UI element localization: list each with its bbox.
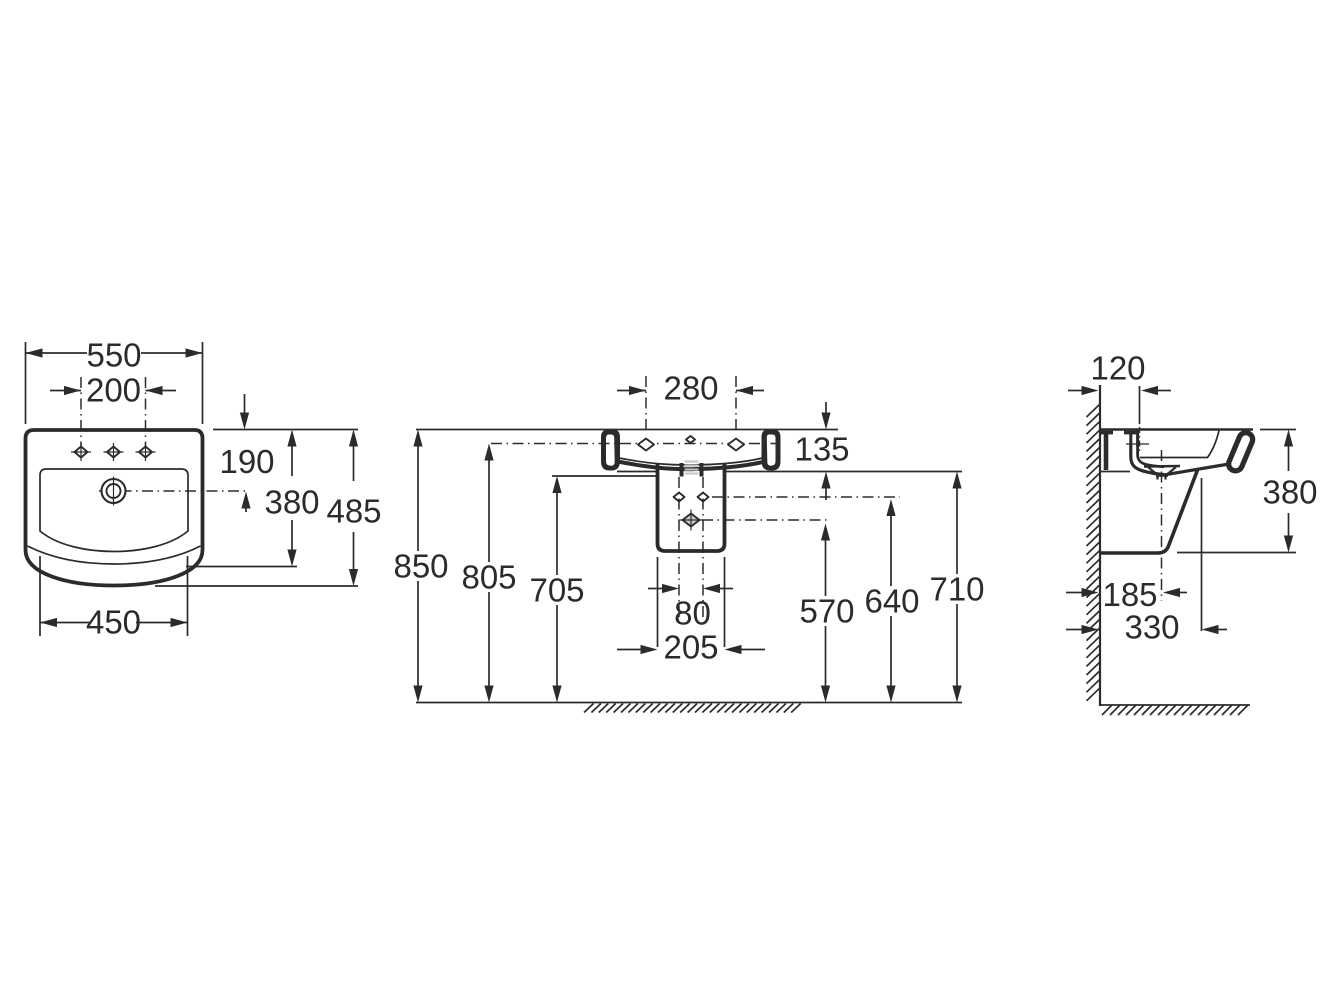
svg-text:380: 380 — [264, 484, 319, 521]
side view: tap hole centre cross — [1126, 443, 1149, 445]
front view: waste stripes — [685, 460, 699, 462]
plan: front ledge curve — [28, 546, 201, 564]
plan: inner basin outline — [40, 469, 188, 552]
side view: overflow channel walls — [1129, 432, 1132, 447]
side view: top edge — [1100, 428, 1253, 431]
svg-text:550: 550 — [86, 337, 141, 374]
svg-text:280: 280 — [663, 370, 718, 407]
dimension 190 — [244, 394, 246, 413]
front view: top edge line with extensions — [416, 429, 838, 431]
dimension 550 — [25, 342, 27, 424]
svg-text:640: 640 — [864, 583, 919, 620]
side view: bowl front underside — [1166, 464, 1232, 475]
dimension 185 — [1066, 592, 1082, 594]
plan top edge extension line — [213, 429, 358, 431]
side view: floor line — [1100, 704, 1250, 706]
side view: deck section bar with fixing slot — [1100, 431, 1113, 435]
side view: back rim section — [1104, 432, 1109, 470]
svg-text:330: 330 — [1124, 609, 1179, 646]
front view: tap hole centre — [686, 436, 695, 443]
dimension 330 — [1066, 629, 1082, 631]
side view: floor hatching — [1102, 705, 1112, 715]
front view: basin underside curves — [619, 458, 763, 465]
dimension 280 — [645, 376, 647, 431]
dimension 80 — [648, 588, 662, 590]
svg-text:705: 705 — [529, 572, 584, 609]
plan: drain circle — [102, 479, 126, 503]
svg-text:850: 850 — [393, 548, 448, 585]
front view: waste fixing tabs — [680, 463, 684, 477]
side view: inner rim curve — [1208, 431, 1220, 458]
front view: tap hole right — [728, 439, 744, 451]
svg-text:200: 200 — [86, 372, 141, 409]
ground line — [416, 702, 962, 704]
dimension 705 — [556, 493, 558, 687]
front view: dash-dot centrelines of pedestal holes — [678, 477, 680, 621]
plan: tap hole right — [139, 447, 152, 458]
side view: bowl back wall section — [1131, 446, 1166, 475]
front view: right rim end — [762, 430, 781, 471]
side view: bowl bottom and waste section — [1144, 465, 1180, 468]
svg-text:805: 805 — [461, 559, 516, 596]
dimension 380 (plan) — [291, 446, 293, 476]
dimension 850 — [417, 446, 419, 686]
plan: tap hole centre — [107, 447, 120, 458]
dimension 205 — [657, 557, 659, 647]
dimension 450 — [39, 556, 41, 636]
side view: wall hatching — [1087, 404, 1101, 417]
side view: drain centreline dash-dot — [1161, 450, 1163, 601]
dimension 485 — [353, 446, 355, 481]
side view: pedestal front and bottom — [1100, 470, 1198, 553]
side view: 330 extension line — [1201, 478, 1203, 631]
front view: semi-pedestal — [658, 464, 725, 551]
dimension 135 — [825, 402, 827, 413]
front view: tap centreline dash-dot — [491, 443, 780, 445]
svg-text:710: 710 — [929, 571, 984, 608]
svg-text:190: 190 — [219, 443, 274, 480]
side view: wall line — [1099, 385, 1101, 706]
side view: front rim roll section — [1236, 440, 1246, 465]
svg-text:135: 135 — [794, 431, 849, 468]
front view: drain hole — [683, 514, 700, 527]
side view: basin underside back line — [1100, 471, 1130, 473]
dimension 200 — [50, 390, 81, 392]
svg-text:120: 120 — [1090, 350, 1145, 387]
front view: tap hole left — [638, 439, 654, 451]
svg-text:450: 450 — [86, 604, 141, 641]
dimension 640 — [890, 516, 892, 687]
svg-text:185: 185 — [1102, 576, 1157, 613]
plan: tap hole left — [75, 447, 88, 458]
dimension 380 (side) — [1260, 429, 1296, 431]
side view: bowl rear edge line — [1140, 457, 1208, 459]
plan: drain centreline dash-dot — [99, 490, 247, 492]
front view: pedestal fixing holes — [674, 493, 685, 502]
svg-text:205: 205 — [663, 629, 718, 666]
dimension 570 — [825, 540, 827, 686]
svg-text:80: 80 — [674, 595, 711, 632]
lower reference lines — [617, 471, 656, 473]
front view: left rim end — [601, 430, 620, 471]
ground hatching — [584, 704, 594, 713]
dimension 805 — [488, 460, 490, 686]
svg-text:380: 380 — [1262, 474, 1317, 511]
plan: tap hole centrelines (200 dim) dash-dot — [80, 377, 82, 446]
svg-text:570: 570 — [799, 593, 854, 630]
washbasin plan view: outer body outline — [26, 430, 203, 586]
dimension 710 — [956, 488, 958, 686]
svg-text:485: 485 — [326, 493, 381, 530]
